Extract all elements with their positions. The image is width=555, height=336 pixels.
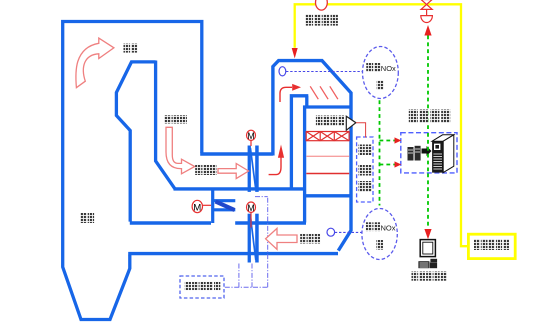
boiler furnace nose wall <box>116 62 155 222</box>
red arrowhead up to valve <box>424 25 431 36</box>
label 省煤器 <box>165 115 187 123</box>
wire raw gas duct bottom wall <box>174 187 305 190</box>
valve V1 on ammonia line <box>421 0 433 23</box>
label 原烟气 <box>195 165 216 176</box>
bypass damper duct <box>213 188 236 224</box>
label 锅炉 <box>81 213 95 223</box>
node outlet sample point <box>327 228 335 236</box>
future catalyst layer lines <box>306 155 349 157</box>
label 声波吹灰 <box>316 116 344 126</box>
wire clean gas duct top wall <box>130 221 306 224</box>
node inlet sample point <box>279 67 286 76</box>
wire ammonia supply yellow line top <box>295 4 469 246</box>
SCR riser duct left wall <box>273 61 351 251</box>
outlet NOx sample dashed line <box>335 231 362 233</box>
ammonia preparation system yellow box <box>468 234 515 258</box>
damper blade <box>216 202 235 211</box>
label 出口NOx 量 <box>366 222 384 249</box>
red arrowhead into control box top branch <box>395 137 402 143</box>
green NOx signal line <box>380 100 395 205</box>
red arrowhead into control box bottom branch <box>395 161 402 167</box>
label 压缩空气系统 <box>359 145 372 192</box>
boiler outer wall <box>63 22 202 320</box>
pump circle on ammonia line <box>316 0 328 10</box>
wire clean gas duct bottom wall <box>128 252 338 255</box>
green control signal line valve to control box <box>427 36 429 229</box>
control system computer icons <box>408 135 454 173</box>
svg-text:M: M <box>247 203 254 213</box>
inlet NOx sample dashed line <box>286 71 362 73</box>
SCR riser duct right wall <box>291 96 308 190</box>
label 入口NOx 量 <box>366 63 383 90</box>
svg-text:M: M <box>193 203 201 214</box>
control room monitor icon <box>418 240 437 269</box>
label 烟气 <box>124 44 138 53</box>
soot blower horn <box>346 116 356 130</box>
motor M1 top rotor <box>247 130 256 140</box>
inlet NOx ellipse <box>363 47 399 99</box>
red flow arrow up in riser <box>269 158 281 175</box>
label 氨制备系统 <box>474 239 509 250</box>
AIG hatch marks <box>310 86 338 99</box>
svg-text:NOx: NOx <box>381 64 396 73</box>
wire green signal through control box <box>427 133 429 173</box>
seal air system dashed box <box>180 276 224 298</box>
outlet NOx ellipse <box>362 209 397 260</box>
label 喷氨格栅 <box>306 14 338 25</box>
hollow arrow clean gas left <box>266 228 297 249</box>
svg-text:NOx: NOx <box>381 223 396 232</box>
GGH bottom rotor <box>248 214 251 263</box>
SCR reactor bottom <box>303 194 351 197</box>
GGH top rotor <box>248 146 251 192</box>
label 净烟气 <box>300 234 320 244</box>
catalyst layer with X pattern <box>306 132 349 141</box>
hollow arrow raw gas right <box>218 164 249 179</box>
label 锅炉控制室 <box>412 272 448 281</box>
economizer pass right wall <box>156 61 175 189</box>
motor M3 damper <box>192 200 202 212</box>
SCR reactor body <box>305 107 351 223</box>
wire raw gas duct top wall <box>200 152 273 155</box>
red ammonia injection arrow <box>292 48 298 58</box>
compressed air system dashed box <box>357 137 373 202</box>
label 密封风系统 <box>185 282 221 291</box>
motor M2 bottom rotor <box>247 202 256 212</box>
svg-text:M: M <box>247 131 254 141</box>
hollow curved arrow flue gas <box>76 38 114 88</box>
red flow arrow at riser top <box>280 87 292 102</box>
control system dashed box <box>401 133 457 173</box>
hollow bent arrow economizer flow <box>166 127 195 174</box>
label 控制系统 <box>409 110 450 123</box>
red arrowhead down to control room <box>424 229 431 239</box>
seal air dashed lines <box>225 197 268 288</box>
